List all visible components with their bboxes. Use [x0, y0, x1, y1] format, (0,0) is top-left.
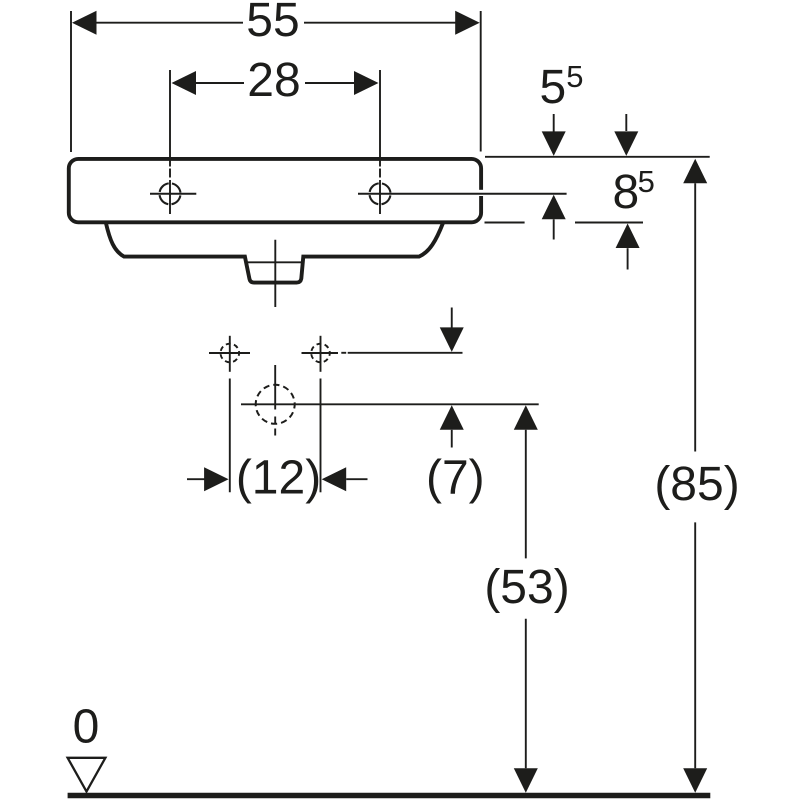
dimension 85 top arrow — [683, 159, 707, 184]
top surface reference line — [485, 156, 710, 158]
dimension 28 line — [195, 82, 355, 84]
svg-text:(7): (7) — [426, 451, 485, 504]
dimension 8.5 reference line at rim bottom — [485, 222, 644, 224]
svg-text:8: 8 — [613, 166, 640, 219]
dimension 53 bottom arrow — [514, 768, 538, 793]
svg-text:28: 28 — [247, 54, 300, 107]
dimension 53 line upper — [525, 430, 527, 559]
dimension 8.5 upper arrow — [625, 114, 627, 131]
drain pipe centre line — [274, 240, 276, 307]
drain hole vertical centre line — [274, 365, 276, 436]
dimension 55 extension line right — [480, 11, 482, 152]
dimension 12 arrow left — [187, 478, 206, 480]
dimension 5.5 upper arrow — [553, 114, 555, 132]
svg-text:55: 55 — [246, 0, 299, 47]
datum triangle — [68, 758, 106, 792]
dimension 55 arrow left — [72, 11, 97, 35]
washbasin bowl outline — [106, 223, 443, 283]
svg-text:5: 5 — [540, 61, 567, 114]
svg-text:(53): (53) — [484, 561, 569, 614]
mounting hole reference line — [341, 352, 346, 354]
dimension 28 arrow right — [354, 71, 379, 95]
dimension 12 extension line right — [320, 379, 322, 493]
faucet hole right / dim 28 centre line — [379, 70, 381, 214]
dimension 28 arrow left — [172, 71, 197, 95]
mounting hole left circle — [221, 344, 240, 363]
dimension 85 line upper — [694, 183, 696, 451]
gap in rim right edge where centre line crosses — [478, 190, 484, 196]
washbasin rim outline — [69, 159, 481, 222]
dimension 7 arrow — [440, 405, 464, 430]
floor line — [68, 793, 711, 799]
mounting hole left cross line — [209, 352, 250, 354]
dimension 12 extension line left — [229, 379, 231, 493]
faucet hole right cross and 5.5 reference line — [358, 193, 567, 195]
dimension 55 arrow right — [455, 11, 480, 35]
svg-text:0: 0 — [73, 701, 100, 754]
faucet hole right circle — [370, 183, 391, 204]
dimension 12 arrow right — [322, 467, 347, 491]
mounting hole right centre line — [320, 336, 322, 372]
drain hole dashed circle — [256, 385, 295, 424]
dimension 55 line — [95, 22, 456, 24]
dimension 53 top arrow — [514, 405, 538, 430]
mounting hole right cross line — [302, 352, 339, 354]
mounting hole right circle — [311, 344, 330, 363]
dimension 55 extension line left — [70, 11, 72, 152]
faucet hole left cross line — [150, 193, 196, 195]
faucet hole left circle — [160, 183, 181, 204]
dimension 5.5 lower arrow — [542, 195, 566, 220]
dimension 85 line lower — [694, 522, 696, 768]
svg-text:(85): (85) — [654, 458, 739, 511]
dimension 53 line lower — [525, 619, 527, 769]
drain hole horizontal centre line / reference line — [241, 403, 539, 405]
faucet hole left / dim 28 centre line — [169, 70, 171, 214]
svg-text:5: 5 — [638, 164, 655, 199]
dimension 85 bottom arrow — [683, 768, 707, 793]
drain boss inner line — [246, 261, 301, 263]
svg-text:(12): (12) — [236, 451, 321, 504]
mounting hole level down arrow — [451, 308, 453, 330]
svg-text:5: 5 — [566, 59, 583, 94]
mounting hole left centre line — [229, 336, 231, 372]
dimension 8.5 lower arrow — [616, 224, 640, 249]
